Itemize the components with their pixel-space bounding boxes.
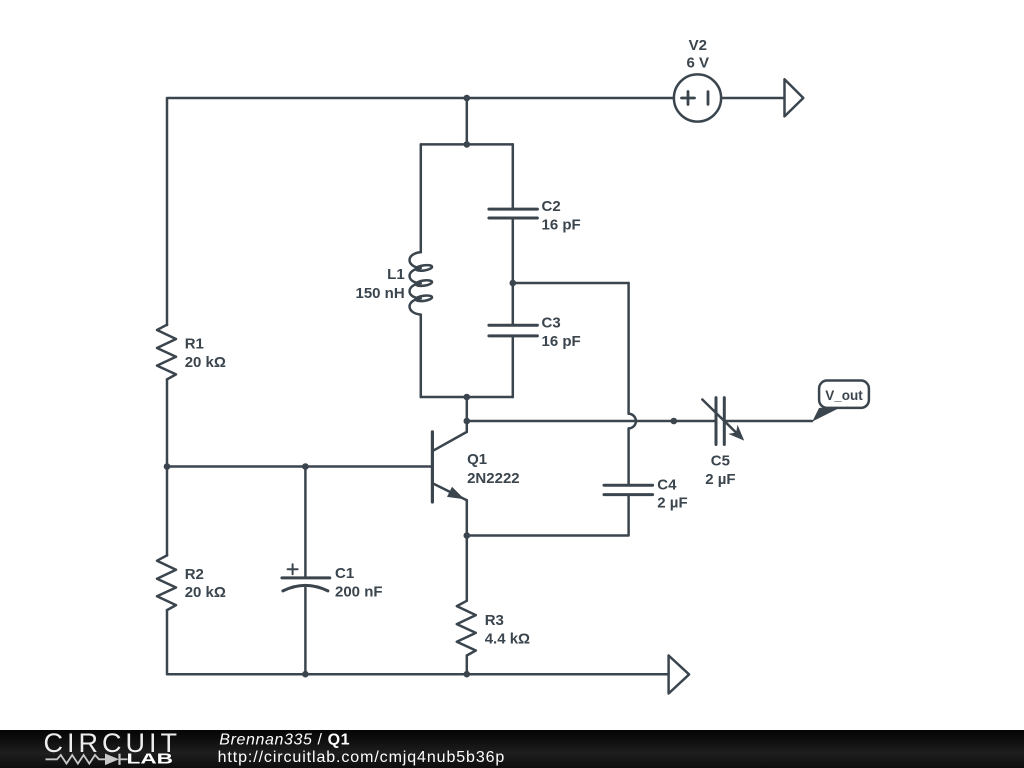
svg-text:Brennan335 / Q1: Brennan335 / Q1 (219, 731, 350, 748)
svg-text:http://circuitlab.com/cmjq4nub: http://circuitlab.com/cmjq4nub5b36p (218, 749, 506, 766)
svg-text:LAB: LAB (127, 751, 174, 768)
